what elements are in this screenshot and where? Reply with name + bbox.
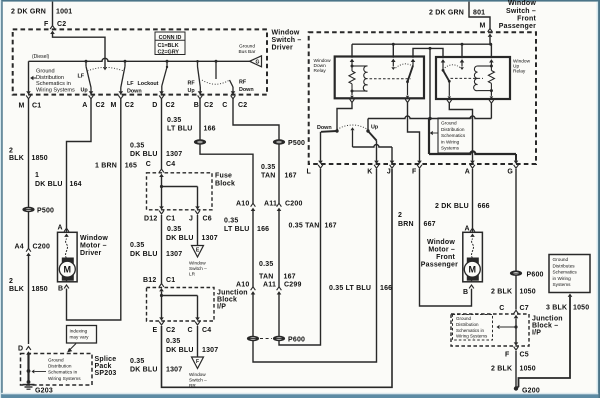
ground G203 bbox=[23, 380, 53, 394]
wire - 2 BLK 1050 pin G column bbox=[515, 169, 517, 271]
svg-text:1050: 1050 bbox=[520, 366, 536, 373]
label - 2 BLK 1850 (upper) bbox=[9, 148, 48, 163]
wire - 2 BLK 1850 upper segment bbox=[28, 99, 30, 208]
wire - 0.35 LT BLU 166 from pin B through splice bbox=[194, 99, 253, 204]
pin M C1 of driver switch bbox=[18, 91, 41, 109]
window switch driver box (dashed) bbox=[13, 29, 267, 94]
svg-text:may vary: may vary bbox=[70, 335, 90, 340]
splice pack SP203 box (dashed) bbox=[21, 354, 93, 386]
svg-text:0.35: 0.35 bbox=[259, 261, 273, 268]
svg-text:B12: B12 bbox=[143, 277, 156, 284]
svg-text:C4: C4 bbox=[202, 327, 211, 334]
connector C C7 at junction block bbox=[499, 305, 529, 318]
svg-text:Relay: Relay bbox=[513, 69, 526, 75]
ground bus bar triangle G bbox=[250, 56, 262, 67]
svg-text:E: E bbox=[153, 327, 158, 334]
svg-text:Ground: Ground bbox=[36, 69, 55, 75]
svg-text:Schematics in: Schematics in bbox=[36, 81, 71, 87]
svg-text:BLK: BLK bbox=[9, 286, 24, 293]
svg-text:Systems: Systems bbox=[441, 146, 460, 151]
svg-text:Ground: Ground bbox=[239, 44, 255, 50]
relay1 exit forks bbox=[350, 96, 410, 103]
connector C200 pin A4 bbox=[15, 244, 51, 257]
relay1 coil and resistor bbox=[349, 62, 368, 95]
svg-text:Motor –: Motor – bbox=[428, 247, 455, 254]
svg-text:Wiring Systems: Wiring Systems bbox=[456, 334, 488, 339]
note - ground distribution schematics in wiring systems (driver) bbox=[30, 69, 75, 94]
svg-text:P500: P500 bbox=[288, 140, 305, 147]
svg-text:167: 167 bbox=[325, 223, 337, 230]
svg-text:TAN: TAN bbox=[259, 274, 273, 281]
label - LF Up bbox=[78, 74, 89, 94]
svg-text:P500: P500 bbox=[37, 208, 54, 215]
svg-text:I/P: I/P bbox=[217, 303, 226, 310]
wire - switch feed from F jog to LF rocker (hops over bus) bbox=[53, 34, 108, 71]
svg-text:164: 164 bbox=[70, 181, 82, 188]
relay2 exit forks bbox=[447, 96, 494, 103]
svg-text:2 DK GRN: 2 DK GRN bbox=[11, 9, 46, 16]
svg-text:Distribution: Distribution bbox=[456, 322, 479, 327]
svg-text:P600: P600 bbox=[527, 272, 544, 279]
svg-text:1307: 1307 bbox=[202, 347, 218, 354]
svg-text:Down: Down bbox=[317, 125, 332, 131]
svg-text:G: G bbox=[507, 169, 513, 176]
junction block IP box right (dashed) bbox=[451, 314, 529, 346]
svg-text:0.35 LT BLU: 0.35 LT BLU bbox=[329, 285, 371, 292]
svg-text:G: G bbox=[256, 59, 260, 65]
relay2 switch bbox=[442, 62, 464, 96]
svg-text:B: B bbox=[463, 289, 468, 296]
svg-text:Distribution: Distribution bbox=[48, 364, 72, 369]
svg-text:0.35: 0.35 bbox=[130, 143, 144, 150]
svg-text:A: A bbox=[58, 225, 63, 232]
window switch front passenger box (dashed) bbox=[309, 32, 536, 164]
svg-text:C2: C2 bbox=[166, 102, 175, 109]
switch - LF up (to pin A) bbox=[85, 60, 92, 88]
wire - 1 BRN 165 motor B to pin M C2 bbox=[67, 99, 121, 320]
wire - 0.35 TAN 167 from pin C through splice P500 bbox=[233, 99, 285, 204]
label - P500 (center) bbox=[288, 140, 305, 147]
svg-text:Motor –: Motor – bbox=[80, 242, 107, 249]
svg-text:C2: C2 bbox=[238, 102, 247, 109]
svg-text:Ground: Ground bbox=[441, 121, 457, 126]
junction block IP box (dashed) bbox=[147, 288, 215, 322]
svg-text:667: 667 bbox=[424, 221, 436, 228]
wire - ground trunk to pins A and G (thick) bbox=[429, 119, 516, 161]
svg-text:A: A bbox=[465, 226, 470, 233]
svg-text:Wiring Systems: Wiring Systems bbox=[36, 87, 75, 93]
wire - 0.35 DK BLU 1307 from pin D to fuse block bbox=[161, 99, 163, 169]
switch - passenger down (to pin L) bbox=[321, 131, 338, 161]
svg-text:C6: C6 bbox=[203, 216, 212, 223]
label - 0.35 DK BLU 1307 (bottom) bbox=[130, 358, 182, 374]
svg-text:Up: Up bbox=[188, 88, 196, 94]
relay2 entry arrows bbox=[441, 59, 494, 62]
svg-text:Relay: Relay bbox=[314, 68, 327, 74]
pin C C4 of junction block bbox=[188, 322, 212, 334]
svg-text:B: B bbox=[194, 102, 199, 109]
svg-text:in Wiring: in Wiring bbox=[441, 139, 460, 144]
svg-text:Schematics in: Schematics in bbox=[456, 328, 485, 333]
label - Fuse Block bbox=[215, 173, 235, 188]
svg-text:Window: Window bbox=[80, 235, 108, 242]
pin E C2 of junction block bbox=[153, 322, 176, 334]
wire - ground trunk between relays bbox=[429, 48, 431, 118]
label - 1 BRN 165 bbox=[95, 163, 137, 170]
pin L of passenger switch bbox=[307, 161, 323, 176]
relay2 mech dashed link bbox=[451, 77, 484, 79]
pin M C2 of driver switch bbox=[110, 88, 134, 110]
wire - relay1 coil exit to down switch bbox=[335, 103, 352, 133]
label - Splice Pack SP203 bbox=[95, 356, 117, 377]
svg-text:A10: A10 bbox=[236, 201, 249, 208]
switch - passenger up (to pin K) bbox=[366, 119, 376, 161]
svg-text:G203: G203 bbox=[35, 388, 53, 395]
svg-text:RF: RF bbox=[188, 81, 196, 87]
connector C C4 at fuse block bbox=[146, 161, 176, 177]
pin F of passenger switch bbox=[412, 161, 422, 176]
svg-text:C2: C2 bbox=[166, 327, 175, 334]
relay1 switch bbox=[391, 62, 413, 95]
svg-text:Ground: Ground bbox=[456, 316, 472, 321]
svg-text:0.35: 0.35 bbox=[167, 117, 181, 124]
svg-text:166: 166 bbox=[380, 285, 392, 292]
svg-text:C: C bbox=[146, 161, 151, 168]
wire - 0.35 DK BLU 1307 to window switch LR bbox=[197, 215, 199, 245]
triangle connector E - window switch LR bbox=[189, 246, 207, 277]
svg-text:LR: LR bbox=[189, 272, 196, 277]
svg-text:J: J bbox=[387, 169, 391, 176]
svg-text:D: D bbox=[18, 346, 23, 353]
svg-text:J: J bbox=[189, 216, 193, 223]
wire - passenger feed rail bbox=[352, 37, 492, 58]
label - Window Down Relay bbox=[314, 58, 332, 74]
relay box - window up relay bbox=[436, 57, 510, 99]
switch - RF down (to pin C) bbox=[230, 80, 234, 87]
label - Window Motor Front Passenger bbox=[421, 239, 458, 269]
note - ground distribution schematics (passenger box) bbox=[430, 118, 473, 153]
wire - 3 BLK 1050 to G200 bbox=[517, 294, 573, 389]
svg-text:(Diesel): (Diesel) bbox=[32, 54, 50, 60]
wire - relay blade rail bbox=[413, 47, 443, 58]
svg-text:Up: Up bbox=[81, 88, 89, 94]
pin G of passenger switch bbox=[507, 161, 518, 176]
label - Window Motor Driver bbox=[80, 235, 108, 257]
ground G200 bbox=[514, 386, 540, 394]
svg-text:F: F bbox=[412, 169, 417, 176]
svg-text:M: M bbox=[479, 23, 485, 30]
svg-text:0.35: 0.35 bbox=[261, 164, 275, 171]
svg-text:DK BLU: DK BLU bbox=[130, 151, 158, 158]
svg-text:D: D bbox=[152, 102, 157, 109]
label - Junction Block IP (right) bbox=[532, 316, 563, 337]
svg-text:Distribution: Distribution bbox=[441, 127, 465, 132]
note - ground distribution schematics (splice pack) bbox=[32, 358, 82, 381]
svg-text:RF: RF bbox=[239, 80, 247, 86]
svg-text:C200: C200 bbox=[285, 201, 303, 208]
mech link - LF rocker dotted arc bbox=[88, 67, 124, 71]
svg-text:C2=GRY: C2=GRY bbox=[158, 49, 180, 55]
svg-text:Window: Window bbox=[513, 59, 531, 65]
svg-text:167: 167 bbox=[285, 173, 297, 180]
svg-text:M: M bbox=[469, 265, 477, 275]
svg-text:C: C bbox=[499, 305, 504, 312]
svg-text:2: 2 bbox=[9, 278, 13, 285]
svg-text:2: 2 bbox=[9, 148, 13, 155]
svg-text:1850: 1850 bbox=[32, 286, 48, 293]
relay1 mech dashed link bbox=[370, 78, 411, 80]
svg-text:Up: Up bbox=[371, 125, 379, 131]
splice P500 on 2 BLK wire bbox=[23, 207, 34, 212]
svg-text:Systems: Systems bbox=[553, 282, 572, 287]
label - Window Switch Driver bbox=[272, 30, 302, 52]
svg-text:DK BLU: DK BLU bbox=[35, 181, 63, 188]
junction block right internal bbox=[497, 319, 519, 346]
wire - 0.35 LT BLU 166 between C200 and C299 (A10) bbox=[252, 211, 254, 287]
svg-text:2: 2 bbox=[398, 212, 402, 219]
svg-text:C: C bbox=[222, 102, 227, 109]
connector C200 pins A10 A11 bbox=[236, 201, 303, 212]
svg-text:C1: C1 bbox=[166, 216, 175, 223]
label - P600 (center bottom) bbox=[288, 337, 305, 344]
svg-text:C: C bbox=[188, 327, 193, 334]
svg-text:DK BLU: DK BLU bbox=[166, 235, 194, 242]
wire - A11 to passenger pin L bbox=[279, 169, 321, 345]
label - 0.35 LT BLU 166 (A10) bbox=[224, 218, 269, 234]
svg-text:Schematics in: Schematics in bbox=[48, 370, 78, 375]
svg-text:Front: Front bbox=[517, 15, 536, 22]
svg-text:C2: C2 bbox=[96, 102, 105, 109]
svg-text:Down: Down bbox=[314, 63, 327, 69]
connector D at splice pack bbox=[18, 346, 31, 355]
label - 2 DK GRN 801 bbox=[429, 10, 485, 17]
svg-text:C1: C1 bbox=[32, 103, 41, 110]
svg-text:Bus Bar: Bus Bar bbox=[238, 49, 255, 55]
svg-text:M: M bbox=[18, 103, 24, 110]
splice P600 on 2 BLK wire bbox=[510, 271, 521, 276]
pin J C6 of fuse block bbox=[189, 211, 212, 223]
fuse block box (dashed) bbox=[147, 173, 213, 210]
svg-text:Switch –: Switch – bbox=[272, 37, 302, 44]
svg-text:LF: LF bbox=[78, 74, 85, 80]
svg-text:166: 166 bbox=[257, 226, 269, 233]
svg-text:C200: C200 bbox=[33, 244, 51, 251]
pin D C2 of driver switch bbox=[152, 86, 175, 109]
switch - RF up (to pin B) bbox=[196, 60, 200, 87]
wire - ground rail with hops bbox=[368, 116, 491, 120]
wire - 0.35 TAN 167 between C200 and C299 (A11) bbox=[278, 211, 280, 287]
pin D12 C1 of fuse block bbox=[144, 211, 175, 223]
svg-text:Window: Window bbox=[189, 372, 206, 377]
note - ground distributes schematics box (right) bbox=[549, 255, 590, 293]
svg-text:2 BLK: 2 BLK bbox=[491, 366, 512, 373]
svg-text:Distribution: Distribution bbox=[36, 75, 64, 81]
svg-text:LT BLU: LT BLU bbox=[224, 226, 250, 233]
wire - 2 BLK to junction block bbox=[515, 275, 517, 309]
svg-text:C2: C2 bbox=[125, 102, 134, 109]
svg-text:Fuse: Fuse bbox=[215, 173, 232, 180]
label - 0.35 DK BLU 1307 (RR branch) bbox=[166, 338, 218, 354]
wire - 2 DK GRN 801 feed to passenger switch bbox=[469, 2, 492, 32]
svg-text:1050: 1050 bbox=[573, 305, 589, 312]
switch - LF down lockout (to pin M) bbox=[121, 61, 125, 87]
svg-text:Down: Down bbox=[239, 87, 254, 93]
pin K of passenger switch bbox=[367, 161, 379, 176]
svg-text:I/P: I/P bbox=[532, 329, 541, 336]
svg-text:K: K bbox=[367, 169, 372, 176]
wire - splice pack internal ground wire bbox=[27, 355, 31, 382]
wire - 0.35 TAN 167 pin L column bbox=[0, 0, 1, 1]
svg-text:Down: Down bbox=[127, 89, 142, 95]
svg-text:Driver: Driver bbox=[80, 250, 102, 257]
pin F C5 of junction block right bbox=[505, 347, 529, 359]
label - Window Switch Front Passenger bbox=[499, 0, 537, 30]
svg-text:M: M bbox=[64, 265, 72, 275]
svg-text:1307: 1307 bbox=[166, 251, 182, 258]
svg-text:1307: 1307 bbox=[166, 151, 182, 158]
label - 0.35 DK BLU 1307 (pin D) bbox=[130, 143, 182, 158]
svg-text:Indexing: Indexing bbox=[70, 329, 88, 334]
svg-text:C4: C4 bbox=[166, 161, 175, 168]
svg-text:1307: 1307 bbox=[202, 235, 218, 242]
label - P600 (right) bbox=[527, 272, 544, 279]
label - 2 BLK 1850 (lower) bbox=[9, 278, 48, 293]
svg-text:SP203: SP203 bbox=[95, 370, 117, 377]
svg-text:C5: C5 bbox=[520, 352, 529, 359]
svg-text:2 BLK: 2 BLK bbox=[491, 289, 512, 296]
wire - 2 DK BLU 666 pin A to motor bbox=[472, 169, 474, 232]
label - 2 DK BLU 666 bbox=[435, 203, 490, 210]
pin C C2 of driver switch bbox=[222, 87, 247, 109]
wire - 0.35 DK BLU 1307 from E C2 to passenger pin J bbox=[162, 169, 393, 387]
wire - relay2 switch exit to pin A bbox=[449, 103, 472, 161]
label - 0.35 DK BLU 1307 (LR branch) bbox=[166, 226, 218, 242]
svg-text:Window: Window bbox=[272, 30, 300, 37]
svg-text:Block: Block bbox=[215, 181, 235, 188]
label - P500 (left) bbox=[37, 208, 54, 215]
svg-text:DK BLU: DK BLU bbox=[166, 347, 194, 354]
svg-text:1307: 1307 bbox=[166, 367, 182, 374]
splice P600 dual on A10 A11 bbox=[247, 295, 284, 341]
svg-text:LF: LF bbox=[127, 81, 134, 87]
switch - lockout down (to pin D) bbox=[162, 61, 168, 86]
svg-text:CONN ID: CONN ID bbox=[159, 35, 182, 41]
svg-text:Window: Window bbox=[314, 58, 332, 64]
wire - A10 to passenger pin K bbox=[253, 169, 377, 362]
svg-text:BLK: BLK bbox=[9, 155, 24, 162]
label - 0.35 LT BLU 166 (K) bbox=[329, 285, 392, 292]
svg-text:801: 801 bbox=[473, 10, 485, 17]
note - indexing may vary box with arrow bbox=[67, 326, 97, 353]
svg-text:0.35: 0.35 bbox=[166, 338, 180, 345]
wire - 0.35 DK BLU 1307 D12 to B12 bbox=[161, 215, 163, 284]
svg-text:166: 166 bbox=[204, 126, 216, 133]
svg-text:A10: A10 bbox=[236, 282, 249, 289]
wire - rocker common to pin J bbox=[353, 145, 393, 161]
pin A C2 of driver switch bbox=[82, 88, 105, 110]
svg-text:0.35: 0.35 bbox=[130, 242, 144, 249]
svg-text:Switch –: Switch – bbox=[506, 8, 536, 15]
window motor driver box bbox=[58, 225, 78, 293]
label - Up (passenger) bbox=[371, 125, 379, 131]
pin J of passenger switch bbox=[387, 161, 394, 176]
note - (Diesel) bbox=[32, 54, 50, 60]
relay box - window down relay bbox=[335, 57, 424, 99]
svg-text:L: L bbox=[307, 169, 312, 176]
svg-text:Up: Up bbox=[513, 64, 519, 70]
label - 2 BRN 667 bbox=[398, 212, 436, 228]
svg-text:C2: C2 bbox=[57, 21, 66, 28]
svg-text:Schematics: Schematics bbox=[553, 270, 578, 275]
svg-text:165: 165 bbox=[125, 163, 137, 170]
svg-text:BRN: BRN bbox=[398, 221, 414, 228]
wire - 0.35 DK BLU 1307 to window switch RR bbox=[197, 326, 199, 357]
label - 0.35 TAN 167 (pin C) bbox=[261, 164, 297, 180]
label - Down (passenger) bbox=[317, 125, 332, 131]
wire - 1 DK BLU 164 from pin A to motor (jog) bbox=[67, 99, 92, 232]
connector C299 pins A10 A11 bbox=[236, 282, 302, 295]
conn id table bbox=[155, 32, 185, 55]
svg-text:Distributes: Distributes bbox=[553, 263, 576, 268]
label - RF Down bbox=[239, 80, 254, 94]
svg-text:1 BRN: 1 BRN bbox=[95, 163, 117, 170]
svg-text:0.35 TAN: 0.35 TAN bbox=[289, 223, 320, 230]
svg-text:C1: C1 bbox=[166, 277, 175, 284]
svg-text:3 BLK: 3 BLK bbox=[546, 305, 567, 312]
label - 2 BLK 1050 (upper right) bbox=[491, 289, 536, 296]
relay2 coil and resistor bbox=[474, 62, 495, 96]
wire - 2 DK GRN 1001 feed from top to connector F of C2 bbox=[50, 2, 55, 29]
label - 0.35 DK BLU 1307 (mid) bbox=[130, 242, 182, 258]
svg-text:2 DK BLU: 2 DK BLU bbox=[435, 203, 469, 210]
svg-text:0.35: 0.35 bbox=[224, 218, 238, 225]
svg-text:C7: C7 bbox=[520, 305, 529, 312]
svg-text:TAN: TAN bbox=[261, 173, 275, 180]
svg-text:Ground: Ground bbox=[48, 358, 64, 363]
svg-text:Passenger: Passenger bbox=[421, 262, 458, 269]
svg-text:Window: Window bbox=[189, 261, 206, 266]
svg-text:DK BLU: DK BLU bbox=[130, 251, 158, 258]
junction block internal wires bbox=[159, 292, 200, 321]
mech link - down-up rocker dotted arc bbox=[337, 125, 368, 147]
label - 0.35 TAN 167 (L) bbox=[289, 223, 337, 230]
svg-text:Wiring Systems: Wiring Systems bbox=[48, 376, 81, 381]
pin M of passenger switch bbox=[479, 23, 492, 37]
svg-text:G200: G200 bbox=[522, 388, 540, 395]
svg-text:167: 167 bbox=[284, 274, 296, 281]
svg-text:in Wiring: in Wiring bbox=[553, 276, 572, 281]
label - 2 DK GRN 1001 bbox=[11, 9, 72, 16]
svg-text:LT BLU: LT BLU bbox=[167, 126, 193, 133]
label - 0.35 LT BLU 166 (pin B) bbox=[167, 117, 216, 133]
svg-text:A4: A4 bbox=[15, 244, 24, 251]
svg-text:A: A bbox=[82, 102, 87, 109]
svg-text:M: M bbox=[110, 102, 116, 109]
svg-text:Driver: Driver bbox=[272, 45, 294, 52]
relay1 entry arrows bbox=[350, 59, 416, 62]
svg-text:A11: A11 bbox=[264, 201, 277, 208]
svg-text:Lockout: Lockout bbox=[138, 81, 159, 87]
label - LF Lockout Down bbox=[127, 81, 159, 95]
svg-text:C2: C2 bbox=[204, 102, 213, 109]
wire - 2 BRN 667 pin F to motor B bbox=[420, 169, 472, 306]
svg-text:0.35: 0.35 bbox=[130, 358, 144, 365]
wire - 2 BLK to connector C200 bbox=[28, 212, 30, 249]
triangle connector F - window switch RR bbox=[189, 357, 207, 388]
svg-text:Schematics: Schematics bbox=[441, 133, 466, 138]
svg-text:Ground: Ground bbox=[553, 257, 569, 262]
svg-text:C1=BLK: C1=BLK bbox=[158, 43, 179, 49]
